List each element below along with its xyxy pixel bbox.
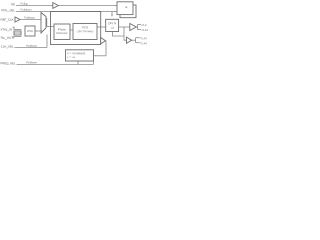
svg-text:DIV N: DIV N	[108, 21, 116, 25]
svg-text:OSC: OSC	[27, 29, 33, 33]
svg-text:÷4: ÷4	[111, 26, 115, 30]
svg-text:1 = ÷4: 1 = ÷4	[67, 56, 75, 59]
svg-text:REF_CLK: REF_CLK	[1, 18, 14, 22]
svg-text:FREQ_SEL: FREQ_SEL	[0, 61, 15, 65]
svg-text:OE: OE	[11, 2, 15, 6]
svg-text:Pulldown: Pulldown	[21, 9, 32, 12]
svg-text:CLK4: CLK4	[140, 42, 147, 45]
svg-text:XTAL_IN: XTAL_IN	[0, 27, 12, 31]
svg-text:(150-700 MHz): (150-700 MHz)	[77, 30, 94, 33]
svg-text:Pulldown: Pulldown	[26, 61, 37, 64]
svg-text:Pullup: Pullup	[21, 3, 29, 6]
svg-text:CLK: CLK	[142, 24, 147, 27]
svg-text:0 = ÷8 (default): 0 = ÷8 (default)	[67, 52, 85, 55]
svg-text:Detector: Detector	[57, 31, 68, 35]
svg-text:Pulldown: Pulldown	[26, 45, 37, 48]
svg-text:CLK_SEL: CLK_SEL	[1, 44, 14, 48]
svg-text:XTAL_OUT: XTAL_OUT	[0, 36, 13, 40]
svg-text:VCO: VCO	[82, 25, 89, 29]
svg-text:XTAL_SEL: XTAL_SEL	[1, 8, 15, 12]
svg-text:CLK3: CLK3	[140, 37, 147, 40]
svg-text:CLK2: CLK2	[142, 29, 148, 32]
svg-text:Pulldown: Pulldown	[24, 17, 35, 20]
